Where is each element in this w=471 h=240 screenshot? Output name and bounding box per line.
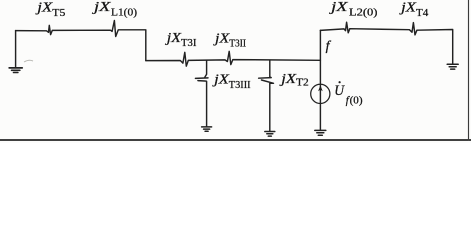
svg-text:jX: jX [91,0,111,14]
svg-text:T3I: T3I [181,37,197,49]
svg-text:T5: T5 [52,7,65,19]
svg-text:jX: jX [328,0,348,14]
svg-text:jX: jX [164,30,181,45]
svg-text:jX: jX [212,72,230,87]
svg-text:f: f [326,39,332,54]
svg-text:jX: jX [399,0,417,14]
svg-text:jX: jX [279,71,297,86]
svg-text:(0): (0) [350,96,364,107]
svg-text:L1(0): L1(0) [111,7,137,19]
svg-text:T3III: T3III [229,79,251,91]
svg-text:L2(0): L2(0) [349,6,378,18]
svg-text:T4: T4 [416,7,429,19]
svg-text:jX: jX [35,0,53,15]
svg-text:T3II: T3II [229,37,246,49]
svg-text:T2: T2 [296,77,309,89]
svg-text:U: U [334,83,345,99]
svg-text:jX: jX [213,31,230,46]
